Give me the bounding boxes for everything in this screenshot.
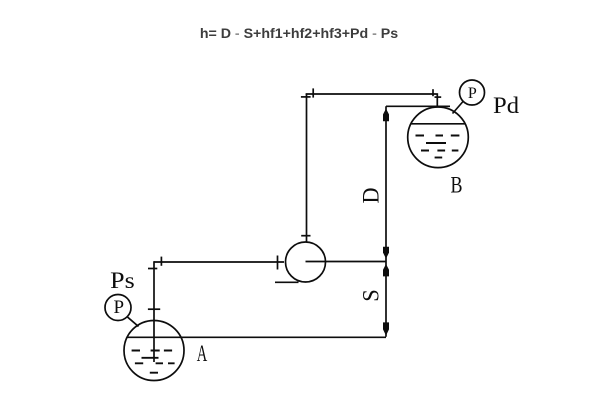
- svg-text:D: D: [359, 188, 384, 204]
- tick on discharge pipe at upper-left corner (horizontal): [301, 96, 311, 98]
- wire: discharge pipe horizontal (upper run to tank B): [306, 93, 437, 95]
- dimension line D-S vertical: [385, 106, 387, 336]
- tank A water dashes row 2: [142, 357, 159, 359]
- tank A water dashes row 1: [132, 350, 172, 352]
- gauge Pd circle: [460, 80, 485, 105]
- tank B water line: [411, 123, 466, 125]
- dimension arrowhead D bottom (points down): [383, 247, 389, 259]
- tank A vessel circle: [124, 321, 184, 381]
- svg-text:B: B: [451, 173, 463, 198]
- tank B water dashes row 1: [416, 135, 460, 137]
- tick on discharge pipe near tank B (vertical): [432, 89, 434, 96]
- tank B water dashes row 2: [426, 142, 446, 144]
- dimension extension line at tank B level: [386, 105, 450, 107]
- wire: suction pipe vertical into tank A: [153, 261, 155, 362]
- wire: pump discharge centerline to dimension line: [306, 261, 387, 263]
- pump casing circle: [286, 242, 326, 282]
- dimension arrowhead S bottom (points down): [383, 322, 389, 335]
- wire: drop pipe into tank B: [436, 93, 438, 107]
- tick on discharge pipe above pump: [301, 235, 310, 237]
- gauge Pd connector line: [453, 102, 464, 114]
- tank B water dash row 4: [435, 157, 443, 159]
- tank B vessel circle: [408, 107, 469, 168]
- dimension arrowhead D top (points up): [383, 109, 389, 122]
- svg-text:Ps: Ps: [110, 268, 135, 293]
- wire: discharge pipe vertical (pump top to upper corner): [306, 94, 308, 242]
- tick on suction drop pipe below corner: [148, 268, 157, 270]
- gauge Ps connector line: [128, 317, 139, 327]
- tank B water dashes row 3: [421, 150, 458, 152]
- tick on discharge pipe at upper-left corner (vertical): [312, 88, 314, 97]
- wire: suction pipe horizontal (tank A to pump): [154, 261, 284, 263]
- tick on suction drop pipe above tank A: [148, 308, 160, 310]
- svg-text:P: P: [468, 85, 477, 102]
- tank A water dashes row 3: [135, 362, 175, 364]
- tank A water dash row 4: [150, 372, 158, 374]
- svg-text:h= D - S+hf1+hf2+hf3+Pd - Ps: h= D - S+hf1+hf2+hf3+Pd - Ps: [200, 26, 398, 42]
- pump base line: [275, 281, 299, 283]
- tick on suction pipe near left corner (vertical): [160, 257, 162, 266]
- svg-text:S: S: [359, 289, 384, 302]
- tick on suction pipe near pump: [277, 256, 279, 270]
- svg-text:Pd: Pd: [493, 93, 520, 118]
- tank A water line extended to dimension line S: [127, 336, 386, 338]
- svg-text:P: P: [114, 297, 125, 318]
- tick on drop pipe at tank B (horizontal): [435, 96, 442, 98]
- svg-text:A: A: [197, 341, 208, 366]
- gauge Ps circle: [105, 295, 131, 321]
- dimension arrowhead S top (points up): [383, 264, 389, 276]
